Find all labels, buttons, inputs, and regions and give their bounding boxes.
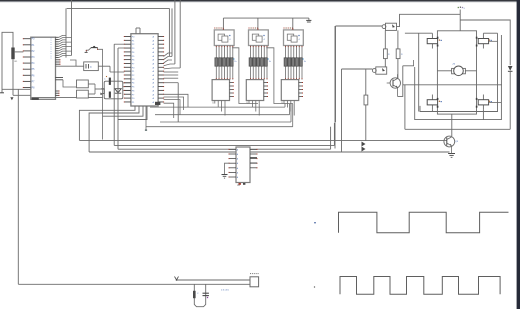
svg-text:a: a: [51, 58, 52, 60]
svg-text:0.5 ohm: 0.5 ohm: [221, 290, 229, 292]
svg-text:+M: +M: [452, 64, 455, 66]
